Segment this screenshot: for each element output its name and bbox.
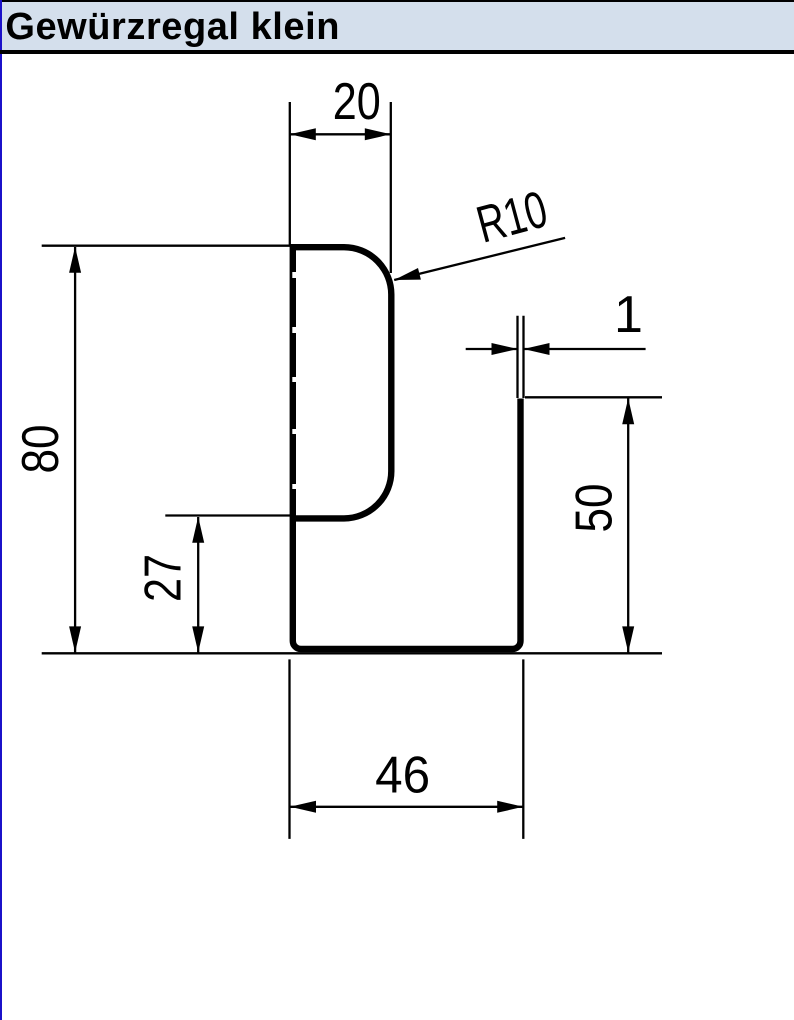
svg-text:46: 46 [375, 747, 430, 805]
svg-text:1: 1 [614, 286, 643, 344]
svg-text:20: 20 [333, 73, 381, 131]
svg-text:50: 50 [566, 484, 624, 533]
svg-text:27: 27 [135, 554, 193, 602]
svg-text:80: 80 [12, 425, 70, 474]
